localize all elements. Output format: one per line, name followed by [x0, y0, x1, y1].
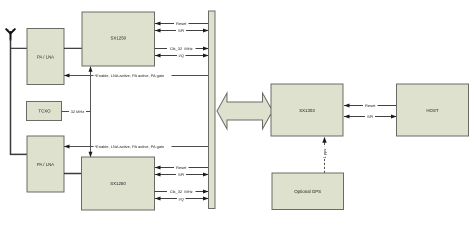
wire antenna branch to upper PA/LNA [11, 47, 28, 49]
svg-text:32 MHz: 32 MHz [71, 109, 85, 114]
block SX1250 (lower) [82, 157, 155, 210]
svg-text:Reset: Reset [176, 165, 187, 170]
svg-text:SPI: SPI [178, 172, 184, 177]
svg-text:*Enable, LNA active, PA active: *Enable, LNA active, PA active, PA gain [95, 144, 165, 149]
svg-text:SX1250: SX1250 [110, 181, 126, 186]
svg-text:SX1250: SX1250 [110, 36, 126, 41]
wire Reset (SX1303 to HOST) [344, 103, 397, 108]
svg-text:Clk_32 MHz: Clk_32 MHz [170, 46, 193, 51]
block PA/LNA (upper) [27, 29, 64, 85]
wire Reset (lower SX1250 to bus) [155, 165, 209, 170]
big bidirectional arrow (bus to SX1303) [217, 93, 273, 129]
wire SPI (upper SX1250 to bus) [155, 28, 209, 33]
wire Enable control (lower, bus to PA/LNA) [64, 144, 209, 149]
svg-text:I/Q: I/Q [179, 53, 184, 58]
wire 1 pps (GPS to SX1303, dashed) [322, 137, 327, 173]
block SX1250 (upper) [82, 12, 155, 66]
svg-text:TCXO: TCXO [38, 108, 51, 113]
wire Clk_32 MHz (lower SX1250 to bus) [155, 189, 209, 194]
svg-text:Clk_32 MHz: Clk_32 MHz [170, 189, 193, 194]
svg-text:Optional GPS: Optional GPS [294, 189, 321, 194]
wire Reset (upper SX1250 to bus) [155, 21, 209, 26]
bus bar (digital interface) [209, 11, 216, 209]
wire lower PA/LNA to SX1250 [64, 173, 82, 175]
wire Enable control (upper, bus to PA/LNA) [64, 73, 209, 78]
svg-text:1 pps: 1 pps [322, 149, 327, 159]
block SX1303 [271, 84, 343, 136]
block TCXO [27, 102, 62, 121]
wire TCXO 32 MHz [62, 109, 91, 114]
svg-text:PA / LNA: PA / LNA [37, 54, 54, 59]
svg-text:I/Q: I/Q [179, 197, 184, 202]
wire antenna feed to lower PA/LNA [11, 40, 28, 155]
svg-text:SPI: SPI [178, 28, 184, 33]
wire SPI (SX1303 to HOST) [344, 114, 397, 119]
svg-text:Reset: Reset [365, 103, 376, 108]
svg-text:SPI: SPI [367, 114, 373, 119]
wire upper PA/LNA to SX1250 [64, 47, 82, 49]
wire Clk_32 MHz (upper SX1250 to bus) [155, 46, 209, 51]
wire 32 MHz clock distribution (vertical) [89, 66, 93, 157]
svg-text:HOST: HOST [426, 108, 439, 113]
block HOST [397, 84, 469, 136]
wire SPI (lower SX1250 to bus) [155, 172, 209, 177]
antenna ANT [6, 29, 15, 40]
svg-text:*Enable, LNA active, PA active: *Enable, LNA active, PA active, PA gain [95, 73, 165, 78]
svg-text:PA / LNA: PA / LNA [37, 162, 54, 167]
svg-text:SX1303: SX1303 [299, 108, 315, 113]
svg-text:Reset: Reset [176, 21, 187, 26]
block Optional GPS [272, 173, 344, 210]
wire I/Q (lower SX1250 to bus) [155, 196, 209, 202]
wire I/Q (upper SX1250 to bus) [155, 53, 209, 58]
block PA/LNA (lower) [27, 136, 64, 192]
